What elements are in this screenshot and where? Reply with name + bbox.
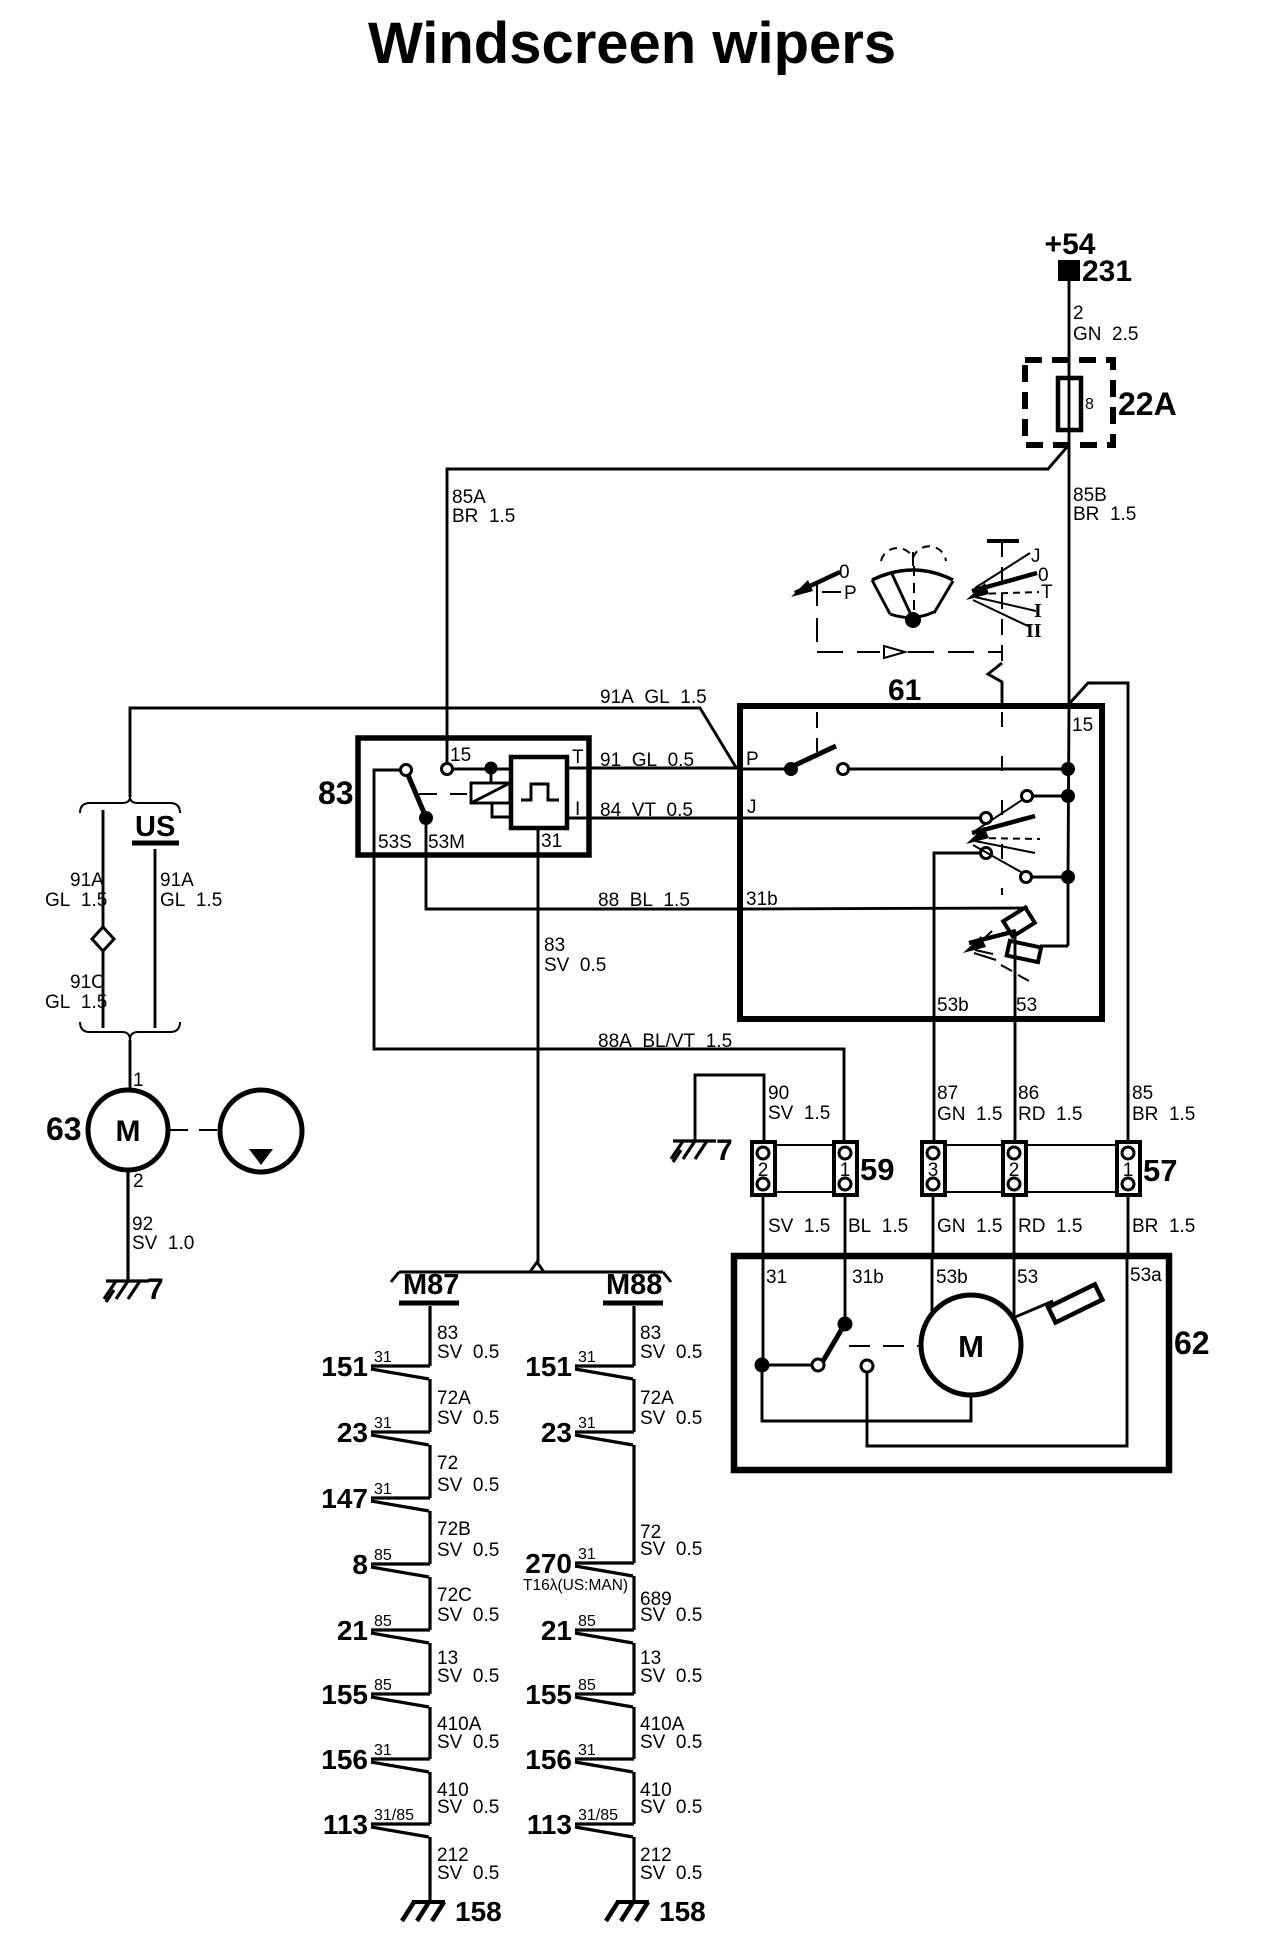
branch to 53a wire (85 BR 1.5 down right side): [1069, 683, 1128, 1142]
svg-text:86: 86: [1018, 1083, 1039, 1104]
svg-text:85A: 85A: [452, 487, 486, 508]
svg-text:87: 87: [937, 1083, 958, 1104]
svg-text:53b: 53b: [936, 1267, 968, 1288]
svg-text:22A: 22A: [1118, 386, 1177, 422]
motor 62 53a return path: [867, 1256, 1127, 1446]
wire 72C SV 0.5 (M87): [437, 1585, 499, 1626]
wire 410 SV 0.5 (M87): [437, 1780, 499, 1818]
relay 83 (wiper interval relay): [318, 738, 589, 855]
connector pin 21/85 (M88): [541, 1613, 634, 1694]
svg-text:2: 2: [758, 1160, 769, 1181]
connector pin 147/31 (M87): [321, 1481, 430, 1564]
svg-text:72C: 72C: [437, 1585, 472, 1606]
svg-text:31: 31: [374, 1349, 392, 1366]
svg-text:1: 1: [133, 1070, 144, 1091]
svg-text:53S: 53S: [378, 832, 412, 853]
wire 83 SV 0.5 (M87): [437, 1323, 499, 1363]
svg-text:SV 1.5: SV 1.5: [768, 1103, 830, 1124]
svg-text:15: 15: [1072, 715, 1093, 736]
svg-text:147: 147: [321, 1483, 368, 1514]
wire 212 SV 0.5 (M88): [640, 1845, 702, 1884]
splice diamond 91A/91C: [92, 927, 114, 951]
wire 212 SV 0.5 (M87): [437, 1845, 499, 1884]
svg-text:SV 0.5: SV 0.5: [437, 1540, 499, 1561]
wire 84 VT 0.5 (relay I to switch 61 J): [567, 800, 740, 821]
connector pin 113/31/85 (M87): [323, 1807, 430, 1900]
svg-text:155: 155: [525, 1679, 572, 1710]
svg-text:SV 0.5: SV 0.5: [544, 955, 606, 976]
svg-text:91A GL 1.5: 91A GL 1.5: [600, 687, 707, 708]
park switch lever and 53 blade (switch 61): [963, 931, 1068, 1142]
wire 72 SV 0.5 (M88): [640, 1522, 702, 1560]
svg-text:M: M: [116, 1115, 141, 1148]
svg-text:83: 83: [640, 1323, 661, 1344]
connector pin 270/31 (M88): [525, 1546, 634, 1630]
svg-text:85B: 85B: [1073, 485, 1107, 506]
svg-text:GN 2.5: GN 2.5: [1073, 324, 1138, 345]
connector pin 8/85 (M87): [352, 1547, 430, 1630]
svg-text:72: 72: [437, 1453, 458, 1474]
svg-text:BL 1.5: BL 1.5: [848, 1216, 908, 1237]
svg-text:31/85: 31/85: [578, 1807, 618, 1824]
svg-text:0: 0: [839, 562, 850, 583]
svg-text:151: 151: [321, 1351, 368, 1382]
svg-text:M: M: [958, 1329, 984, 1364]
wire 72 SV 0.5 (M87): [437, 1453, 499, 1496]
connector pin 113/31/85 (M88): [527, 1807, 634, 1900]
svg-text:GL 1.5: GL 1.5: [45, 890, 107, 911]
svg-text:US: US: [135, 811, 175, 843]
wiper sweep sector symbol: [872, 546, 953, 628]
svg-text:SV 1.5: SV 1.5: [768, 1216, 830, 1237]
svg-text:53: 53: [1017, 1267, 1038, 1288]
wiper switch 61 (steering column switch): [740, 674, 1102, 1019]
svg-text:1: 1: [840, 1160, 851, 1181]
svg-text:J: J: [1031, 546, 1041, 567]
svg-text:53: 53: [1016, 995, 1037, 1016]
svg-text:BR 1.5: BR 1.5: [1132, 1216, 1195, 1237]
svg-text:91C: 91C: [70, 972, 105, 993]
svg-text:1: 1: [1123, 1160, 1134, 1181]
wiper motor M (62): [762, 1256, 1021, 1421]
svg-text:SV 0.5: SV 0.5: [437, 1863, 499, 1884]
svg-text:31: 31: [374, 1481, 392, 1498]
svg-text:62: 62: [1174, 1325, 1210, 1361]
svg-text:31b: 31b: [852, 1267, 884, 1288]
svg-text:72A: 72A: [640, 1388, 674, 1409]
svg-text:61: 61: [888, 674, 921, 707]
wire 72A SV 0.5 (M87): [437, 1388, 499, 1429]
svg-text:2: 2: [1073, 303, 1084, 324]
svg-text:23: 23: [337, 1417, 368, 1448]
wire 87 GN 1.5 (switch 61 53b to connector 57 pin 3): [937, 1083, 1002, 1125]
ground 7 and wire 90 SV 1.5 (to connector 59 pin 2): [671, 1075, 830, 1167]
svg-text:BR 1.5: BR 1.5: [1132, 1104, 1195, 1125]
wire 13 SV 0.5 (M87): [437, 1648, 499, 1687]
svg-text:SV 0.5: SV 0.5: [437, 1475, 499, 1496]
connector pin 156/31 (M87): [321, 1742, 430, 1824]
svg-text:SV 0.5: SV 0.5: [437, 1666, 499, 1687]
svg-text:83: 83: [318, 775, 354, 811]
svg-text:31: 31: [374, 1742, 392, 1759]
svg-text:31b: 31b: [746, 889, 778, 910]
splice of wire 83 to M87 and M88: [391, 1262, 671, 1282]
svg-text:83: 83: [544, 935, 565, 956]
wire 91A GL 1.5 (switch 61 P to US splice): [130, 687, 737, 797]
connector bracket M88: [603, 1269, 663, 1366]
svg-text:RD 1.5: RD 1.5: [1018, 1104, 1082, 1125]
wire BL 1.5 (59 pin1 to motor 62 pin 31b): [845, 1195, 908, 1256]
relay coil: [471, 783, 512, 817]
wire 83 SV 0.5 (relay 31 to M87/M88 splice): [538, 828, 606, 1262]
svg-text:92: 92: [132, 1214, 153, 1235]
svg-text:SV 0.5: SV 0.5: [437, 1605, 499, 1626]
svg-text:SV 0.5: SV 0.5: [640, 1342, 702, 1363]
svg-text:91 GL 0.5: 91 GL 0.5: [600, 750, 694, 771]
svg-text:31: 31: [541, 831, 562, 852]
svg-text:85: 85: [1132, 1083, 1153, 1104]
svg-text:91A: 91A: [160, 870, 194, 891]
wire 91 GL 0.5 (relay T to switch 61 P): [567, 750, 740, 771]
switch 61 pin 15 feed wire: [1068, 706, 1069, 946]
svg-text:7: 7: [716, 1134, 733, 1167]
svg-text:84 VT 0.5: 84 VT 0.5: [600, 800, 693, 821]
svg-text:8: 8: [352, 1549, 368, 1580]
wire 85 BR 1.5 (to connector 57 pin 1): [1132, 1083, 1195, 1125]
washer motor 63: [46, 1090, 168, 1170]
svg-text:GN 1.5: GN 1.5: [937, 1216, 1002, 1237]
svg-text:90: 90: [768, 1083, 789, 1104]
svg-text:231: 231: [1082, 255, 1132, 288]
bottom brace to washer motor: [80, 1022, 180, 1091]
stalk shaft zigzag into switch 61: [988, 663, 1002, 706]
connector bracket M87: [399, 1269, 459, 1366]
svg-text:113: 113: [527, 1809, 572, 1840]
wire SV 1.5 (59 pin2 to motor 62 pin 31): [763, 1195, 830, 1256]
svg-text:31: 31: [766, 1267, 787, 1288]
svg-text:SV 0.5: SV 0.5: [640, 1539, 702, 1560]
svg-text:RD 1.5: RD 1.5: [1018, 1216, 1082, 1237]
wiper stalk position fan (J 0 T I II): [966, 541, 1053, 663]
ground 158 (M87): [402, 1896, 502, 1927]
svg-text:91A: 91A: [70, 870, 104, 891]
svg-text:SV 0.5: SV 0.5: [640, 1666, 702, 1687]
node 231 (+54 supply terminal): [1045, 228, 1133, 288]
washer contact P (switch 61): [740, 712, 1075, 776]
svg-text:53b: 53b: [937, 995, 969, 1016]
connector pin 151/31 (M88): [525, 1349, 634, 1432]
svg-text:59: 59: [860, 1152, 894, 1187]
svg-text:72A: 72A: [437, 1388, 471, 1409]
svg-text:83: 83: [437, 1323, 458, 1344]
ground 7 (washer motor): [104, 1273, 164, 1306]
svg-text:SV 0.5: SV 0.5: [437, 1797, 499, 1818]
US variant bracket (top brace): [80, 797, 180, 843]
svg-text:3: 3: [928, 1160, 939, 1181]
svg-text:2: 2: [1009, 1160, 1020, 1181]
wiper speed selector contacts (switch 61): [740, 789, 1075, 1142]
connector pin 151/31 (M87): [321, 1349, 430, 1432]
connector pin 23/31 (M88): [541, 1415, 634, 1563]
svg-text:21: 21: [337, 1615, 368, 1646]
svg-text:SV 0.5: SV 0.5: [437, 1408, 499, 1429]
svg-text:BR 1.5: BR 1.5: [452, 506, 515, 527]
connector pin 21/85 (M87): [337, 1613, 430, 1694]
svg-text:85: 85: [374, 1677, 392, 1694]
svg-text:BR 1.5: BR 1.5: [1073, 504, 1136, 525]
svg-text:270: 270: [525, 1548, 572, 1579]
wire 85A BR 1.5 (fuse to relay 83 pin 15): [447, 447, 1067, 764]
ground 158 (M88): [606, 1896, 706, 1927]
svg-text:M88: M88: [606, 1269, 662, 1301]
svg-text:151: 151: [525, 1351, 572, 1382]
wire 85B BR 1.5 (fuse to switch 61 pin 15): [1069, 446, 1136, 706]
wire RD 1.5 (57 pin2 to motor 62 pin 53): [1014, 1195, 1082, 1256]
relay pin 15 terminal: [442, 764, 453, 775]
wire 689 SV 0.5 (M88): [523, 1577, 702, 1626]
wire 72A SV 0.5 (M88): [640, 1388, 702, 1429]
svg-text:158: 158: [455, 1896, 502, 1927]
svg-text:31: 31: [578, 1742, 596, 1759]
svg-text:63: 63: [46, 1111, 82, 1147]
wire 83 SV 0.5 (M88): [640, 1323, 702, 1363]
svg-text:53a: 53a: [1130, 1265, 1162, 1286]
svg-text:156: 156: [321, 1744, 368, 1775]
wire 13 SV 0.5 (M88): [640, 1648, 702, 1687]
svg-text:7: 7: [147, 1273, 164, 1306]
svg-text:SV 0.5: SV 0.5: [640, 1797, 702, 1818]
svg-text:SV 0.5: SV 0.5: [640, 1605, 702, 1626]
svg-text:Windscreen wipers: Windscreen wipers: [368, 11, 896, 76]
wire 91A GL 1.5 (right branch, US): [155, 849, 222, 1028]
svg-text:31: 31: [374, 1415, 392, 1432]
wire 410A SV 0.5 (M88): [640, 1714, 702, 1753]
park contact 31b blade (switch 61): [740, 907, 1035, 936]
svg-text:T: T: [1041, 582, 1053, 603]
svg-text:SV 0.5: SV 0.5: [640, 1732, 702, 1753]
svg-text:P: P: [746, 749, 759, 770]
svg-text:113: 113: [323, 1809, 368, 1840]
svg-text:53M: 53M: [428, 832, 465, 853]
svg-text:2: 2: [133, 1171, 144, 1192]
svg-text:SV 0.5: SV 0.5: [640, 1863, 702, 1884]
svg-text:GN 1.5: GN 1.5: [937, 1104, 1002, 1125]
svg-text:85: 85: [374, 1547, 392, 1564]
relay timer unit with pulse symbol: [511, 757, 567, 828]
relay internal wire pin15 to timer: [453, 762, 512, 784]
wire 86 RD 1.5 (switch 61 53 to connector 57 pin 2): [1018, 1083, 1082, 1125]
svg-text:I: I: [1034, 600, 1042, 622]
svg-text:SV 0.5: SV 0.5: [640, 1408, 702, 1429]
motor 62 brush arm: [1013, 1284, 1102, 1322]
motor 62 park switch lever: [769, 1256, 919, 1372]
svg-text:GL 1.5: GL 1.5: [160, 890, 222, 911]
mechanical link (dashed) washer lever to stalk: [817, 646, 1002, 658]
svg-text:85: 85: [374, 1613, 392, 1630]
washer lever symbol (0 / P positions): [791, 562, 857, 652]
svg-text:85: 85: [578, 1677, 596, 1694]
wire 2 GN 2.5 (231 to fuse 22A): [1069, 281, 1138, 360]
wire 91A GL 1.5 (left branch): [45, 810, 107, 1028]
connector pin 155/85 (M88): [525, 1677, 634, 1759]
wire 410A SV 0.5 (M87): [437, 1714, 499, 1753]
washer pump: [170, 1090, 302, 1172]
wire 410 SV 0.5 (M88): [640, 1780, 702, 1818]
fuse 22A: [1025, 360, 1177, 446]
svg-text:GL 1.5: GL 1.5: [45, 992, 107, 1013]
svg-text:M87: M87: [403, 1269, 459, 1301]
wire 91C GL 1.5: [45, 972, 107, 1013]
motor 62 pin 31 wire: [755, 1256, 770, 1373]
svg-text:SV 1.0: SV 1.0: [132, 1233, 194, 1254]
switch 61 mechanical link (dashed): [1001, 712, 1003, 895]
selector lever fan (switch 61): [966, 800, 1040, 872]
svg-text:156: 156: [525, 1744, 572, 1775]
svg-text:SV 0.5: SV 0.5: [437, 1342, 499, 1363]
connector pin 23/31 (M87): [337, 1415, 430, 1498]
svg-text:31: 31: [578, 1546, 596, 1563]
svg-text:158: 158: [659, 1896, 706, 1927]
wire 88 BL 1.5 (relay 53M to switch 61 31b): [426, 822, 740, 911]
wire 92 SV 1.0 (motor 63 pin 2 to ground): [128, 1170, 194, 1281]
wire GN 1.5 (57 pin3 to motor 62 pin 53b): [933, 1195, 1002, 1256]
svg-text:8: 8: [1085, 396, 1094, 413]
svg-text:T: T: [572, 747, 584, 768]
svg-text:85: 85: [578, 1613, 596, 1630]
svg-text:31: 31: [578, 1415, 596, 1432]
svg-text:23: 23: [541, 1417, 572, 1448]
wiper motor 62: [734, 1256, 1210, 1470]
svg-text:57: 57: [1143, 1153, 1177, 1188]
svg-text:SV 0.5: SV 0.5: [437, 1732, 499, 1753]
svg-text:72B: 72B: [437, 1519, 471, 1540]
relay switch contact 53S/53M: [401, 765, 468, 826]
connector 57: [922, 1142, 1177, 1195]
svg-text:88A BL/VT 1.5: 88A BL/VT 1.5: [598, 1031, 732, 1052]
connector pin 155/85 (M87): [321, 1677, 430, 1759]
svg-text:155: 155: [321, 1679, 368, 1710]
svg-text:T16λ(US:MAN): T16λ(US:MAN): [523, 1577, 628, 1594]
svg-text:P: P: [844, 583, 857, 604]
svg-text:II: II: [1026, 620, 1042, 642]
svg-text:J: J: [747, 797, 757, 818]
wire 88A BL/VT 1.5 (relay 53S to connector 59 pin 1): [374, 770, 844, 1142]
svg-text:21: 21: [541, 1615, 572, 1646]
connector 59: [752, 1142, 894, 1195]
wire 72B SV 0.5 (M87): [437, 1519, 499, 1561]
svg-text:88 BL 1.5: 88 BL 1.5: [598, 890, 690, 911]
svg-text:31: 31: [578, 1349, 596, 1366]
wire BR 1.5 (57 pin1 to motor 62 pin 53a): [1128, 1195, 1195, 1256]
svg-text:31/85: 31/85: [374, 1807, 414, 1824]
svg-text:15: 15: [450, 745, 471, 766]
connector pin 156/31 (M88): [525, 1742, 634, 1824]
